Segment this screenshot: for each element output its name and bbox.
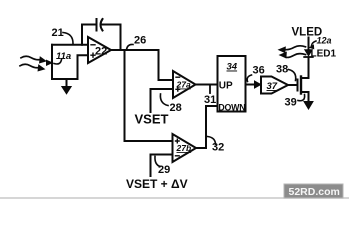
light output arrows from LED1 bbox=[279, 46, 306, 58]
comparator 27b bbox=[173, 134, 197, 162]
label 11a bbox=[54, 51, 71, 64]
wire: VLED supply rail to LED1 anode bbox=[308, 38, 310, 51]
wire: op-amp 22 output to node 26 and comparator 27a jog bbox=[111, 50, 173, 80]
wire: VSET to comparator 27a non-inverting input bbox=[151, 89, 174, 112]
svg-text:39: 39 bbox=[285, 97, 297, 109]
svg-text:28: 28 bbox=[170, 102, 182, 114]
svg-text:26: 26 bbox=[134, 35, 146, 47]
svg-text:38: 38 bbox=[276, 64, 288, 76]
svg-text:21: 21 bbox=[52, 27, 64, 39]
transistor Q39 (NMOS LED driver) bbox=[298, 58, 309, 102]
wire: photodiode anode loop to op-amp 22 non-inverting input bbox=[52, 55, 88, 79]
label 38 bbox=[276, 64, 296, 81]
wire: comparator 27b output to counter 34 DOWN input bbox=[196, 106, 218, 148]
svg-text:32: 32 bbox=[212, 142, 224, 154]
wire: counter 34 output (net 36) to buffer 37 bbox=[246, 81, 261, 88]
svg-text:UP: UP bbox=[219, 81, 233, 92]
wire: comparator 27a output to counter 34 UP input bbox=[196, 84, 218, 86]
svg-text:VSET: VSET bbox=[135, 112, 169, 127]
ground (photodiode return) bbox=[62, 79, 71, 94]
wire: buffer 37 output to gate of Q39 bbox=[288, 84, 298, 86]
label 21 bbox=[52, 27, 74, 44]
label 29 bbox=[155, 157, 170, 177]
svg-text:12a: 12a bbox=[317, 36, 332, 46]
svg-text:36: 36 bbox=[253, 65, 265, 77]
svg-text:34: 34 bbox=[227, 62, 238, 73]
label 36 bbox=[247, 65, 265, 82]
op-amp U22 bbox=[88, 37, 111, 63]
svg-text:DOWN: DOWN bbox=[218, 103, 245, 113]
svg-text:27a: 27a bbox=[176, 80, 191, 90]
comparator 27a bbox=[173, 71, 196, 98]
light arrows into photodiode 11a bbox=[20, 56, 46, 71]
svg-text:52RD.com: 52RD.com bbox=[289, 186, 340, 198]
label 26 bbox=[127, 35, 147, 50]
svg-text:22: 22 bbox=[95, 46, 107, 58]
wire: node 26 branch down to comparator 27b non-inverting input bbox=[125, 50, 173, 141]
label 32 bbox=[208, 137, 225, 154]
svg-text:27b: 27b bbox=[176, 143, 192, 153]
ground (transistor Q39 source) bbox=[304, 102, 313, 110]
buffer U37 (gate driver) bbox=[261, 77, 288, 94]
label 12a bbox=[310, 36, 332, 49]
svg-text:11a: 11a bbox=[56, 51, 71, 62]
counter U34 (UP/DOWN counter) bbox=[218, 56, 246, 113]
label 31 (node tick) bbox=[204, 85, 216, 106]
capacitor C1 (feedback of op-amp 22) bbox=[82, 19, 121, 50]
svg-text:31: 31 bbox=[204, 94, 216, 106]
watermark badge bbox=[284, 184, 343, 198]
svg-text:VSET + ΔV: VSET + ΔV bbox=[126, 177, 188, 191]
photodiode 11a bbox=[47, 45, 53, 79]
bottom rule bbox=[0, 197, 349, 199]
label 28 bbox=[160, 94, 181, 114]
wire: VSET + delta-V to comparator 27b inverting input bbox=[151, 155, 173, 177]
LED LED1 bbox=[304, 50, 313, 57]
svg-text:37: 37 bbox=[267, 81, 278, 92]
wire: photodiode cathode to op-amp 22 inverting input bbox=[52, 44, 88, 46]
label 39 bbox=[285, 95, 305, 109]
svg-text:LED1: LED1 bbox=[311, 49, 337, 60]
